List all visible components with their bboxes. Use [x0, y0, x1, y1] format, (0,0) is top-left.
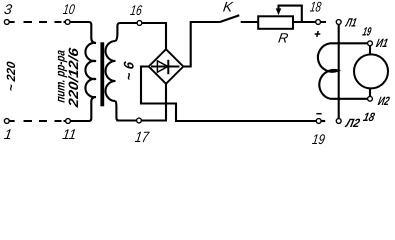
svg-text:R: R [277, 31, 289, 46]
svg-text:11: 11 [62, 126, 78, 142]
svg-text:~ 220: ~ 220 [4, 60, 18, 92]
svg-text:220/12/6: 220/12/6 [66, 47, 81, 110]
svg-text:18: 18 [309, 0, 322, 15]
svg-text:18: 18 [362, 110, 376, 124]
svg-text:3: 3 [3, 1, 13, 17]
svg-text:И2: И2 [377, 94, 391, 108]
svg-text:16: 16 [129, 2, 143, 18]
svg-text:~ 6: ~ 6 [121, 61, 137, 82]
svg-text:19: 19 [311, 131, 326, 146]
svg-text:19: 19 [361, 25, 372, 39]
svg-text:10: 10 [62, 1, 76, 17]
svg-text:Л2: Л2 [344, 116, 362, 130]
svg-text:17: 17 [134, 129, 150, 146]
svg-text:Л1: Л1 [344, 16, 358, 30]
svg-text:1: 1 [3, 126, 13, 142]
svg-text:И1: И1 [375, 36, 390, 50]
svg-text:K: K [222, 0, 234, 14]
